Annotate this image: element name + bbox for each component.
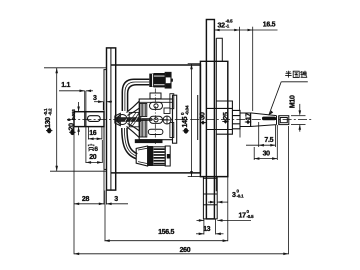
dim 156.5 <box>104 191 106 242</box>
svg-text:17: 17 <box>246 113 253 121</box>
phi130 dim line <box>56 68 58 171</box>
32 arrows <box>214 29 219 32</box>
svg-text:260: 260 <box>180 247 191 254</box>
vertical phi145 label <box>180 105 190 127</box>
terminal A <box>150 102 163 109</box>
svg-text:28: 28 <box>82 196 90 203</box>
short cable to box lower <box>128 124 140 131</box>
plate second edge line <box>215 38 217 191</box>
svg-text:3: 3 <box>232 192 236 199</box>
20 arrows <box>86 161 91 164</box>
label semicircular key <box>285 71 307 78</box>
dim 30 <box>253 147 255 160</box>
svg-text:145: 145 <box>182 116 189 127</box>
vertical phi17 label <box>246 113 253 121</box>
cable to rect connector <box>122 128 137 159</box>
dim 7.5 <box>258 122 260 147</box>
shaft step phi17 <box>240 113 251 127</box>
16.5 arrow <box>248 29 253 32</box>
dim 13 <box>203 219 205 235</box>
screw cross <box>163 116 171 124</box>
hub boss outer <box>217 101 233 134</box>
vertical phi30 label <box>199 112 206 120</box>
round connector (top) <box>149 72 173 88</box>
rear flange <box>107 48 116 190</box>
dim 3 top <box>94 101 103 103</box>
svg-text:-0.04: -0.04 <box>185 105 190 115</box>
1.1 arrows <box>80 90 85 93</box>
svg-text:20: 20 <box>89 154 97 161</box>
svg-text:3: 3 <box>114 196 118 203</box>
dim 28 and 3 <box>73 127 75 254</box>
terminal B <box>150 116 163 123</box>
svg-text:6: 6 <box>94 146 98 153</box>
phi20 arrows <box>77 107 80 112</box>
svg-text:16.5: 16.5 <box>263 22 276 29</box>
dim 32 <box>238 27 240 111</box>
svg-text:16: 16 <box>89 130 97 137</box>
box lid tab <box>150 93 161 99</box>
30 arrows <box>254 157 259 160</box>
dim 16 <box>87 127 89 140</box>
svg-text:130: 130 <box>45 117 52 128</box>
phi30 diamond <box>201 120 205 124</box>
svg-text:M10: M10 <box>290 95 297 108</box>
260 arrows <box>74 253 79 256</box>
3-0.1 arrows <box>210 201 215 204</box>
dim 20 <box>85 127 87 163</box>
M10 arrows <box>299 110 302 115</box>
svg-text:25: 25 <box>223 112 230 120</box>
vertical M10 label <box>290 95 297 108</box>
top tab on housing <box>216 38 222 61</box>
phi17 diamond <box>246 120 250 124</box>
svg-text:-0.013: -0.013 <box>71 109 76 121</box>
cable to round connector <box>122 79 149 111</box>
svg-text:-0.5: -0.5 <box>247 214 255 219</box>
mounting plate <box>206 20 214 219</box>
shaft step phi25 <box>232 110 240 128</box>
box inner hatch strip lower <box>140 120 147 137</box>
phi20 dim line <box>78 102 80 112</box>
box foot <box>135 140 162 143</box>
svg-text:30: 30 <box>263 151 271 158</box>
M10 dim <box>291 115 306 117</box>
cable gland <box>115 113 120 125</box>
thread neck <box>278 116 280 125</box>
leader semicircular key <box>281 81 308 83</box>
phi145 dim line <box>191 64 193 177</box>
3 bottom arrow <box>106 203 111 206</box>
13 arrows <box>199 233 204 236</box>
threaded end M10 <box>279 116 289 125</box>
short cable to box upper <box>128 108 140 115</box>
box inner hatch strip upper <box>140 104 147 117</box>
groove 1.1 lines <box>84 112 86 127</box>
box right plate <box>173 95 177 143</box>
svg-text:1.1: 1.1 <box>61 82 70 89</box>
phi25 diamond <box>224 119 228 123</box>
3 top arrow <box>98 100 103 103</box>
svg-text:-0.2: -0.2 <box>48 108 53 116</box>
motor body phi130 <box>111 65 200 173</box>
dim 3-0.1 <box>208 201 215 203</box>
svg-text:3: 3 <box>93 95 97 102</box>
17 arrows <box>199 219 204 222</box>
centerline main axis <box>67 119 313 121</box>
dim 17-0.5 <box>197 219 205 221</box>
phi130 arrows <box>55 68 58 74</box>
dim text width6 <box>88 144 94 152</box>
svg-text:7.5: 7.5 <box>264 137 273 144</box>
vertical phi130 label <box>43 108 53 128</box>
svg-text:20: 20 <box>69 123 76 131</box>
terminal box <box>139 99 172 140</box>
hatched block left <box>129 112 139 126</box>
tapered shaft <box>251 113 277 127</box>
16 arrows <box>88 138 93 141</box>
dim 260 <box>288 126 290 254</box>
woodruff key <box>262 117 276 121</box>
terminal C <box>148 129 163 134</box>
7.5 arrows <box>259 144 264 147</box>
156.5 arrows <box>105 239 110 242</box>
svg-text:32: 32 <box>218 22 226 29</box>
rect connector (bottom) <box>136 146 170 166</box>
dim 16.5 <box>252 27 254 111</box>
svg-text:30: 30 <box>199 112 206 120</box>
front housing ring <box>200 61 227 176</box>
svg-text:13: 13 <box>203 226 211 233</box>
leader arrow <box>269 111 274 116</box>
hub boss inner phi30 <box>206 108 232 129</box>
small relay rect <box>164 108 170 114</box>
svg-text:-0.1: -0.1 <box>237 193 245 198</box>
rear shaft phi20 <box>74 112 104 127</box>
bottom bracket <box>203 177 217 219</box>
vertical phi25 label <box>223 112 230 120</box>
svg-text:156.5: 156.5 <box>158 229 174 236</box>
central bolt <box>116 116 121 123</box>
vertical dashed centerline of box <box>154 89 156 145</box>
svg-text:-1: -1 <box>226 23 230 28</box>
svg-text:17: 17 <box>239 212 247 219</box>
dim 1.1 <box>59 90 85 92</box>
vertical phi20 label <box>67 109 77 131</box>
phi145 arrows <box>190 64 193 69</box>
arrowheads <box>55 29 301 255</box>
rear boss ring <box>104 70 107 170</box>
phi130 extension lines <box>44 67 107 69</box>
28 arrows <box>74 203 79 206</box>
keyway slot width6 <box>88 116 101 122</box>
